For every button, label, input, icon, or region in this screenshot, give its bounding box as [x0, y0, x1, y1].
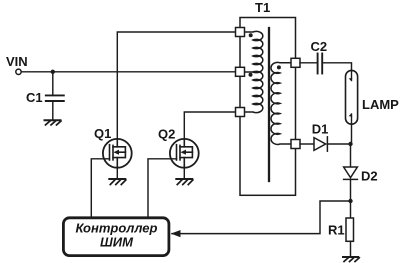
T1 pin 4 (secondary top): [291, 58, 300, 67]
T1 pin 2 (center tap): [236, 67, 245, 76]
T1 pin 1 (primary top): [236, 28, 245, 37]
wire Q1 drain to T1 pin1 (top): [117, 32, 240, 139]
controller box (PWM controller): [63, 218, 168, 256]
ground (R1): [343, 257, 359, 262]
wire VIN rail to T1 center tap: [21, 71, 239, 73]
wire T1 pin5 to D1: [300, 143, 314, 145]
wire feedback to controller: [172, 201, 351, 234]
wire D2 to R1 node: [350, 179, 352, 201]
wire D1 to lamp node: [327, 143, 350, 145]
svg-text:ШИМ: ШИМ: [100, 234, 134, 249]
wire C2 to lamp top: [322, 63, 351, 71]
svg-text:R1: R1: [328, 223, 345, 238]
resistor R1: [346, 218, 354, 241]
T1 polarity dot primary top: [249, 33, 253, 37]
wire T1 pin4 to C2: [300, 62, 317, 64]
capacitor C2: [318, 54, 323, 74]
wire Q2 drain to T1 pin3 (bottom): [184, 112, 240, 139]
lamp electrode bottom: [349, 113, 353, 124]
lamp electrode top: [349, 70, 353, 81]
node lamp/D1/D2 junction: [348, 142, 352, 146]
T1 pin 3 (primary bottom): [236, 108, 245, 117]
T1 secondary winding: [271, 62, 291, 144]
node feedback junction: [348, 199, 352, 203]
wire R1 top: [350, 201, 352, 218]
VIN input terminal: [16, 69, 21, 74]
wire node to D2: [350, 144, 352, 167]
T1 polarity dot primary lower: [249, 73, 253, 77]
svg-text:Контроллер: Контроллер: [76, 220, 158, 235]
node junction C1: [51, 70, 55, 74]
svg-text:C1: C1: [26, 90, 43, 105]
transistor Q1: [103, 139, 132, 168]
ground (C1): [45, 120, 62, 125]
arrowhead into controller: [171, 230, 181, 237]
wire Q2 source: [183, 168, 185, 179]
capacitor C1: [46, 72, 64, 121]
svg-text:Q1: Q1: [94, 126, 111, 141]
T1 primary center-tap stub: [245, 71, 253, 73]
T1 pin 5 (secondary bottom): [291, 140, 300, 149]
transistor Q2: [170, 139, 199, 168]
T1 core: [268, 28, 270, 181]
ground (Q1): [109, 179, 126, 185]
svg-text:D1: D1: [312, 121, 329, 136]
wire Q1 source: [116, 168, 118, 179]
wire lamp bottom to D1 rail: [351, 124, 353, 144]
T1 primary winding: [245, 31, 263, 112]
svg-text:C2: C2: [311, 39, 328, 54]
svg-text:LAMP: LAMP: [362, 97, 399, 112]
svg-text:T1: T1: [255, 0, 270, 15]
wire Q1 gate to controller: [91, 159, 109, 217]
svg-text:Q2: Q2: [158, 127, 175, 142]
transformer T1 outline box: [240, 18, 296, 196]
LAMP tube: [346, 70, 358, 124]
diode D1: [314, 137, 327, 151]
diode D2: [344, 167, 358, 179]
wire R1 bottom: [350, 241, 352, 257]
T1 polarity dot secondary: [277, 65, 281, 69]
wire Q2 gate to controller: [148, 159, 177, 217]
ground (Q2): [176, 179, 193, 185]
svg-text:D2: D2: [361, 169, 378, 184]
svg-text:VIN: VIN: [6, 54, 28, 69]
